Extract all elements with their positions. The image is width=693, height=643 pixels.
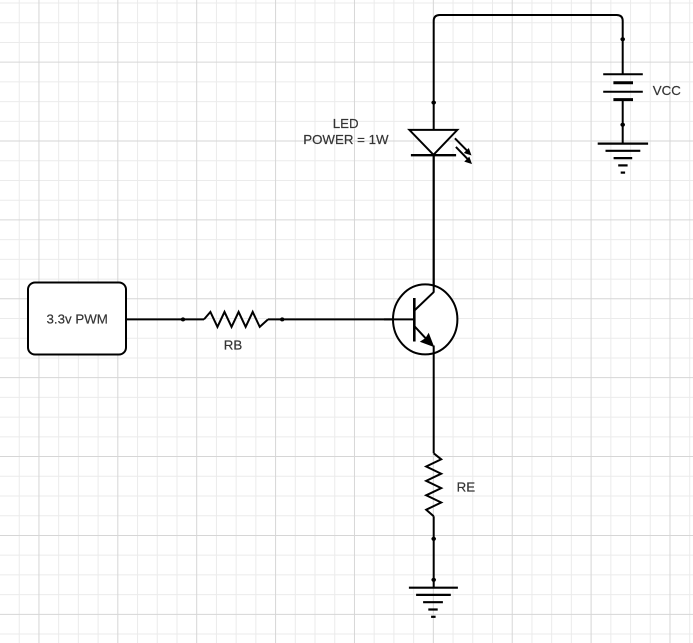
wire emitter down to RE [433,346,435,454]
transistor Q1 (NPN) [393,284,457,354]
svg-text:RE: RE [457,480,476,495]
node waypoint dot left of RB [181,317,186,321]
wire RB to transistor base [268,318,413,320]
LED light arrowheads [465,149,471,155]
svg-text:RB: RB [224,337,243,352]
wire collector up to LED [433,155,435,292]
emitter arrowhead [421,334,434,346]
svg-text:LED: LED [333,116,359,131]
node waypoint dot battery-ground wire [620,123,625,127]
node waypoint dot on vertical wire above LED [431,101,436,105]
battery VCC [603,74,643,99]
svg-text:VCC: VCC [653,83,681,98]
ground (emitter) [409,588,458,617]
node waypoint dot right of RB [280,317,285,321]
resistor RB [204,312,268,327]
svg-text:POWER = 1W: POWER = 1W [303,132,389,147]
wire collector-to-LED top net: LED anode up, across, down to battery [434,15,623,130]
source box 3.3v PWM [28,283,126,355]
LED D1 [409,130,467,292]
wire battery to ground [622,100,624,144]
node waypoint dot above bottom ground [431,578,436,582]
node waypoint dot on wire right of corner [620,37,625,41]
svg-text:3.3v PWM: 3.3v PWM [47,312,108,327]
node waypoint dot on emitter wire [431,537,436,541]
ground (VCC return) [598,144,648,173]
resistor RE [426,453,441,516]
wire RE to ground [433,516,435,587]
wire box to RB [126,318,204,320]
